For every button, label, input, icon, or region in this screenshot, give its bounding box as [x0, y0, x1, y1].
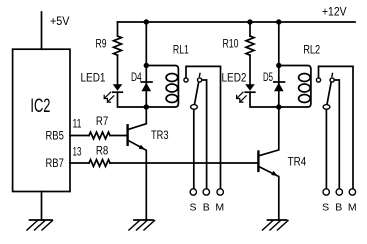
svg-text:13: 13	[73, 144, 82, 158]
svg-text:R7: R7	[96, 114, 109, 128]
svg-text:R9: R9	[96, 37, 107, 51]
svg-text:S: S	[322, 201, 329, 213]
svg-text:RL2: RL2	[303, 43, 320, 57]
svg-text:M: M	[348, 201, 357, 213]
svg-text:B: B	[203, 201, 210, 213]
svg-text:R10: R10	[223, 37, 239, 51]
svg-text:IC2: IC2	[30, 96, 50, 117]
svg-text:TR4: TR4	[288, 155, 307, 169]
svg-text:D5: D5	[263, 70, 273, 84]
svg-text:RB5: RB5	[46, 129, 65, 143]
svg-text:RL1: RL1	[173, 43, 189, 57]
svg-text:B: B	[335, 201, 342, 213]
svg-text:+12V: +12V	[322, 5, 347, 19]
svg-text:M: M	[215, 201, 224, 213]
svg-text:11: 11	[73, 116, 82, 130]
svg-text:TR3: TR3	[151, 128, 169, 142]
svg-text:RB7: RB7	[46, 156, 65, 170]
svg-text:S: S	[189, 201, 196, 213]
svg-text:LED2: LED2	[222, 70, 247, 84]
svg-text:D4: D4	[131, 70, 142, 84]
svg-text:+5V: +5V	[50, 14, 70, 28]
svg-text:R8: R8	[96, 144, 109, 158]
svg-text:LED1: LED1	[81, 70, 106, 84]
